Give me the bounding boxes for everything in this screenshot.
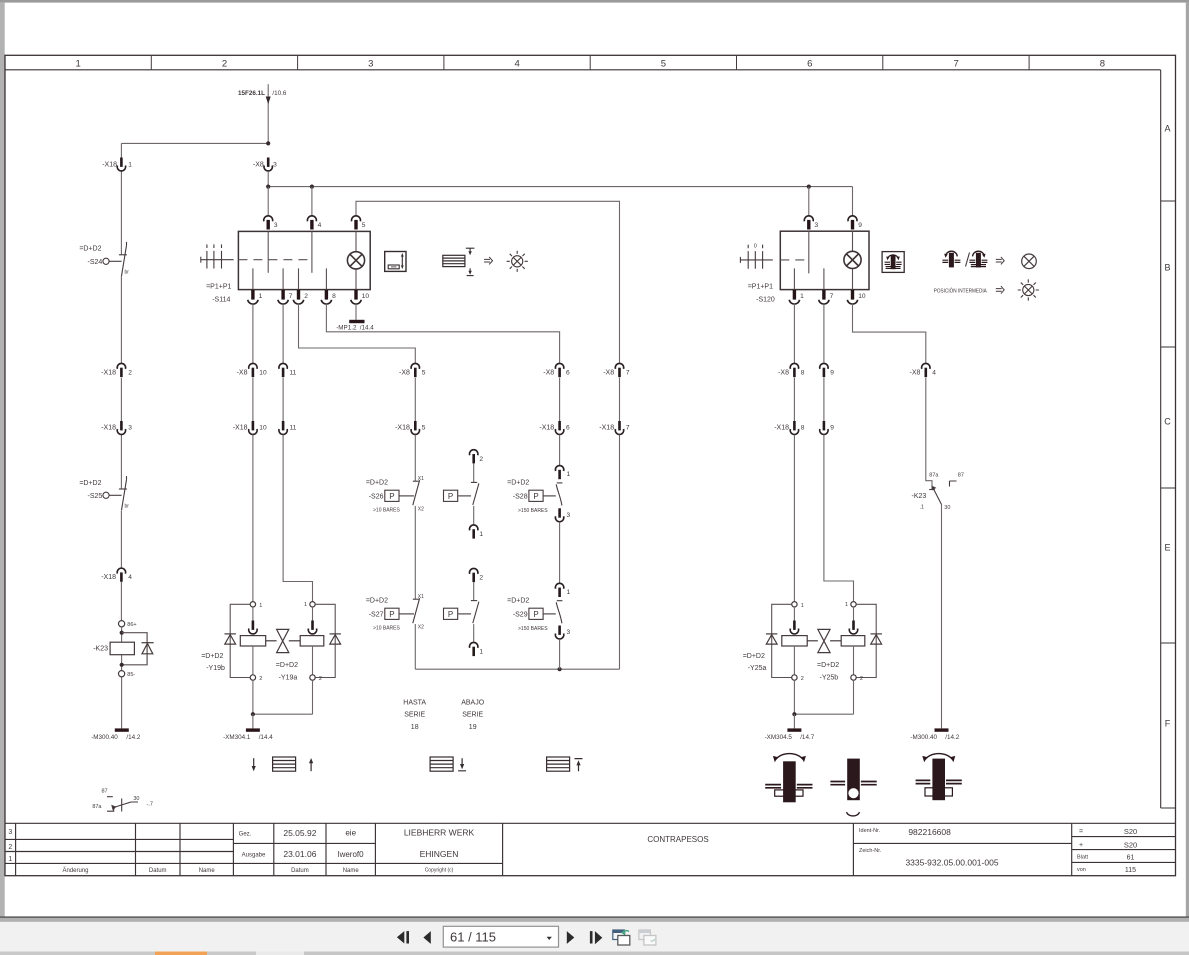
bottom icon arrow down to bar	[458, 758, 466, 771]
wire S28 to S29	[559, 522, 561, 584]
svg-text:115: 115	[1125, 867, 1136, 874]
contact ABAJO lower	[458, 601, 479, 624]
bottom icon arrow up to bar	[575, 759, 583, 772]
wire X18:6 to S28	[559, 435, 561, 466]
svg-text:=D+D2: =D+D2	[276, 662, 298, 669]
wire X18:5 to S26	[414, 435, 416, 481]
ground M300.40 right	[935, 728, 949, 731]
wire bus to S114 pin4	[311, 187, 313, 216]
svg-text:-X18: -X18	[233, 425, 248, 432]
wire S114 pin10 to MP1.2	[355, 304, 357, 320]
wire lamp feed S114 pin5	[356, 201, 620, 363]
legend stack icon	[443, 255, 465, 266]
svg-text:-S29: -S29	[513, 611, 528, 618]
pressure switch S28	[543, 483, 562, 506]
svg-text:1: 1	[845, 602, 848, 608]
svg-text:7: 7	[626, 425, 630, 432]
contact ABAJO lower P box	[444, 608, 458, 619]
terminal X18:5	[411, 421, 419, 434]
terminal ABAJO pin 2 upper	[470, 450, 478, 464]
pressure switch S28 P box	[529, 490, 543, 501]
svg-text:1: 1	[801, 603, 804, 609]
svg-text:>150 BARES: >150 BARES	[518, 626, 548, 632]
wire ABAJO lower	[473, 582, 475, 600]
svg-text:=D+D2: =D+D2	[79, 480, 101, 487]
taskbar sliver segment light	[256, 952, 304, 955]
wire bus to S114 pin3	[267, 187, 269, 216]
wire X8:9 to X18:9	[823, 378, 825, 422]
svg-text:POSICIÓN INTERMEDIA: POSICIÓN INTERMEDIA	[934, 287, 987, 294]
wire K23 30 to ground	[941, 505, 943, 729]
svg-text:HASTA: HASTA	[403, 700, 426, 707]
wire S25 to X18:4	[120, 511, 122, 569]
lamp H-S114	[347, 252, 364, 269]
svg-text:=D+D2: =D+D2	[366, 480, 388, 487]
svg-text:Blatt: Blatt	[1077, 855, 1088, 861]
wire ABAJO mid lower	[473, 624, 475, 642]
terminal S114 pin 4	[307, 216, 316, 230]
svg-text:br: br	[125, 504, 130, 510]
coil -Y19b	[240, 636, 265, 646]
valve block Y19 circle terminal 2 left	[250, 675, 255, 680]
svg-text:br: br	[125, 270, 130, 276]
svg-text:-X18: -X18	[539, 425, 554, 432]
svg-text:3: 3	[274, 222, 278, 229]
svg-text:-X18: -X18	[599, 425, 614, 432]
svg-text:86+: 86+	[127, 622, 136, 628]
bottom icon arrow up	[310, 762, 312, 771]
svg-text:-XM304.1: -XM304.1	[223, 734, 251, 741]
svg-text:1: 1	[479, 649, 483, 656]
terminal X18:9	[820, 421, 828, 434]
svg-text:Copyright (c): Copyright (c)	[425, 868, 454, 874]
svg-text:-X18: -X18	[395, 425, 410, 432]
svg-text:2: 2	[860, 676, 863, 682]
legend blinking lamp 2	[1018, 279, 1039, 300]
S120 internal contact lines	[794, 231, 852, 289]
svg-text:4: 4	[128, 574, 132, 581]
svg-text:=D+D2: =D+D2	[366, 598, 388, 605]
junction node bottom bus	[558, 667, 562, 671]
wire bus to S120 pin9	[809, 187, 853, 216]
terminal X18:4	[117, 568, 125, 582]
svg-text:eie: eie	[345, 829, 356, 838]
svg-text:-X8: -X8	[603, 370, 614, 377]
toolbar icon switch window disabled	[639, 930, 656, 945]
wire Y25 to ground bar	[793, 714, 795, 728]
svg-text:2: 2	[259, 676, 262, 682]
svg-text:1: 1	[567, 589, 571, 596]
taskbar sliver segment gray 3	[304, 952, 1189, 955]
coil -Y25a	[782, 636, 807, 646]
junction node Y19 ground	[251, 712, 255, 716]
valve block Y25 circle terminal 2 right	[851, 675, 856, 680]
svg-text:E: E	[1164, 543, 1170, 553]
wire top branch horizontal	[121, 142, 268, 144]
window chrome right strip	[1186, 3, 1189, 917]
svg-text:Name: Name	[343, 868, 360, 874]
svg-text:8: 8	[332, 293, 336, 300]
junction node bus at X8:3	[266, 185, 270, 189]
svg-text:SERIE: SERIE	[462, 712, 483, 719]
svg-text:3: 3	[368, 59, 373, 70]
legend square icon arrows	[401, 253, 404, 269]
svg-text:-M300.40: -M300.40	[91, 734, 118, 741]
svg-text:=D+D2: =D+D2	[507, 598, 529, 605]
wire Y19 ground link	[253, 680, 313, 714]
svg-text:2: 2	[801, 676, 804, 682]
svg-text:=: =	[1079, 829, 1083, 836]
diode Y19 left	[225, 634, 236, 644]
wire main top bus	[268, 186, 852, 188]
svg-text:-Y19b: -Y19b	[206, 665, 225, 672]
svg-text:A: A	[1164, 124, 1170, 134]
terminal X8:10	[249, 363, 257, 377]
toolbar button next view	[590, 931, 593, 943]
svg-text:1: 1	[800, 293, 804, 300]
svg-text:-S27: -S27	[369, 611, 384, 618]
svg-text:1: 1	[259, 603, 262, 609]
svg-text:Datum: Datum	[291, 868, 309, 874]
svg-text:>10 BARES: >10 BARES	[373, 626, 400, 632]
relay K23 coil terminal 85-	[119, 671, 125, 677]
svg-text:Ident-Nr.: Ident-Nr.	[859, 828, 881, 834]
terminal S114 pin 10	[351, 290, 361, 304]
svg-text:-X8: -X8	[543, 370, 554, 377]
relay K23 coil terminal 86+	[119, 621, 125, 627]
wire Y25 coil A bottom	[793, 646, 795, 675]
wire X8:10 to X18:10	[252, 378, 254, 422]
wire X8:5 to X18:5	[414, 378, 416, 422]
svg-text:11: 11	[290, 370, 297, 377]
svg-text:-S114: -S114	[212, 297, 230, 304]
svg-text:=D+D2: =D+D2	[743, 653, 765, 660]
svg-text:/14.7: /14.7	[800, 734, 815, 741]
wire X18:9 to Y25b	[824, 435, 854, 602]
svg-text:-Y25b: -Y25b	[820, 675, 839, 682]
svg-text:1: 1	[8, 856, 12, 863]
wire S114 pin1 to X8:10	[252, 304, 254, 364]
terminal S120 pin 10	[847, 290, 857, 304]
wire Y25 left diode branch	[772, 604, 792, 677]
toolbar button previous view	[397, 931, 404, 943]
svg-text:10: 10	[259, 425, 267, 432]
toolbar background	[0, 922, 1189, 952]
svg-text:30: 30	[133, 796, 139, 802]
wire ABAJO upper	[473, 463, 475, 482]
diode Y25 left	[766, 634, 777, 644]
taskbar sliver segment orange	[155, 952, 207, 955]
svg-text:5: 5	[661, 59, 666, 70]
title block lines	[5, 823, 1176, 875]
svg-text:-M300.40: -M300.40	[910, 734, 937, 741]
wire X18:8 to Y25a	[793, 435, 795, 602]
wire S114 pin7 to X8:11	[282, 304, 284, 364]
svg-text:X2: X2	[418, 625, 424, 631]
valve block Y19 circle terminal 1 right	[310, 602, 315, 607]
svg-text:von: von	[1077, 867, 1086, 873]
S114 operator symbol	[201, 244, 234, 268]
diode Y25 right	[871, 634, 882, 644]
svg-text:30: 30	[944, 505, 950, 511]
svg-text:982216608: 982216608	[908, 827, 951, 837]
legend arrow double right 3	[996, 286, 1004, 294]
toolbar button previous page	[423, 931, 430, 944]
svg-text:>10 BARES: >10 BARES	[373, 508, 400, 514]
wire bottom bus	[415, 668, 619, 670]
svg-text:9: 9	[830, 425, 834, 432]
wire X18:2 to X18:3	[120, 378, 122, 421]
svg-text:=D+D2: =D+D2	[817, 662, 839, 669]
S114 internal contact lines	[253, 231, 356, 289]
K23 aux contact arrowhead	[111, 805, 116, 811]
svg-text:7: 7	[626, 370, 630, 377]
svg-text:-X8: -X8	[253, 162, 264, 169]
terminal Y19 coil A	[249, 621, 257, 634]
svg-text:7: 7	[289, 293, 293, 300]
column cell ticks	[151, 55, 1029, 70]
terminal Y25 coil B	[849, 621, 857, 634]
svg-text:3: 3	[8, 829, 12, 836]
wire Y19 coil A bottom	[252, 646, 254, 675]
svg-text:1: 1	[479, 531, 483, 538]
svg-text:5: 5	[362, 222, 366, 229]
valve block Y25 circle terminal 1 right	[851, 602, 856, 607]
svg-text:-Y19a: -Y19a	[279, 675, 298, 682]
svg-text:Ausgabe: Ausgabe	[242, 853, 266, 859]
wire Y19 coil B bottom	[312, 646, 314, 675]
junction node Y25 ground	[792, 712, 796, 716]
svg-text:-S25: -S25	[88, 493, 103, 500]
svg-text:Zeich-Nr.: Zeich-Nr.	[859, 848, 882, 854]
terminal S120 pin 1	[789, 290, 799, 304]
svg-text:Änderung: Änderung	[62, 867, 88, 874]
lamp H-S120	[844, 251, 861, 268]
svg-text:S20: S20	[1124, 841, 1137, 850]
ground -XM304.1	[246, 728, 260, 731]
svg-text:0: 0	[754, 244, 757, 250]
terminal X18:8	[790, 421, 798, 434]
svg-text:6: 6	[807, 59, 812, 70]
wire X8:7 to X18:7	[619, 378, 621, 422]
wire S114 pin2 to X8:5	[299, 304, 416, 364]
svg-text:/14.2: /14.2	[126, 734, 141, 741]
svg-text:1: 1	[259, 293, 263, 300]
S120 square icon glyph	[885, 255, 902, 269]
svg-text:85-: 85-	[127, 672, 135, 678]
svg-text:-X8: -X8	[237, 370, 248, 377]
terminal X8:11	[279, 363, 287, 377]
switch S24	[103, 242, 127, 276]
wire to X18:1	[120, 143, 122, 157]
wire S120 pin10 to X8:4	[853, 304, 926, 364]
terminal X18:6	[555, 421, 563, 434]
svg-text:C: C	[1164, 417, 1171, 427]
bottom icon arrow down	[253, 758, 255, 767]
junction node K23 bottom	[120, 663, 124, 667]
svg-text:EHINGEN: EHINGEN	[420, 849, 459, 859]
terminal ABAJO pin 1 upper	[470, 525, 478, 539]
contact ABAJO upper P box	[444, 490, 458, 501]
wire Y25 coil B bottom	[853, 646, 855, 675]
wire S114 pin8 to X8:6	[326, 304, 559, 364]
svg-text:F: F	[1165, 719, 1171, 729]
ground M300.40 left	[115, 728, 129, 731]
terminal X8:9	[820, 363, 828, 377]
switch S25	[103, 476, 127, 510]
wire S24 to X18:2	[120, 276, 122, 364]
svg-text:15F26.1L: 15F26.1L	[238, 90, 265, 97]
svg-text:-X18: -X18	[101, 425, 116, 432]
valve symbol Y19	[266, 629, 301, 652]
wire Y25 coil B top	[853, 607, 855, 621]
svg-text:3: 3	[815, 222, 819, 229]
svg-text:+: +	[1079, 842, 1083, 849]
svg-text:.1: .1	[920, 505, 925, 511]
svg-text:Name: Name	[199, 868, 216, 874]
svg-text:=D+D2: =D+D2	[507, 480, 529, 487]
svg-text:3335-932.05.00.001-005: 3335-932.05.00.001-005	[905, 858, 998, 868]
terminal X8:8	[790, 363, 798, 377]
svg-text:-XM304.5: -XM304.5	[765, 734, 793, 741]
terminal X8:7	[615, 363, 623, 377]
svg-text:61: 61	[1127, 855, 1135, 862]
S120 square icon counterweight	[882, 252, 904, 273]
coil -Y25b	[841, 636, 865, 646]
pictogram ballast swing right	[916, 754, 962, 801]
terminal Y25 coil A	[790, 621, 798, 634]
toolbar icon switch window active	[613, 930, 630, 945]
svg-text:-K23: -K23	[912, 493, 927, 500]
wire X18:10 to Y19b	[252, 435, 254, 602]
svg-text:5: 5	[422, 370, 426, 377]
svg-text:=P1+P1: =P1+P1	[748, 284, 773, 291]
terminal X8:6	[555, 363, 563, 377]
svg-text:X2: X2	[418, 507, 424, 513]
window chrome top strip	[0, 0, 1189, 3]
wire X18:11 to Y19a	[283, 435, 312, 602]
svg-text:87: 87	[101, 789, 107, 795]
terminal ABAJO pin 1 lower	[470, 642, 478, 656]
wire K23 85- to ground	[121, 677, 123, 728]
svg-text:-X8: -X8	[399, 370, 410, 377]
svg-text:-X8: -X8	[778, 370, 789, 377]
svg-text:9: 9	[858, 222, 862, 229]
svg-text:7: 7	[953, 59, 958, 70]
pressure switch S26 P box	[385, 490, 399, 501]
terminal S114 pin 8	[321, 290, 331, 304]
K23 aux contact sketch	[107, 797, 138, 812]
wire S120 pin7 to X8:9	[823, 304, 825, 364]
junction node K23 top	[120, 631, 124, 635]
svg-text:-X18: -X18	[101, 574, 116, 581]
taskbar sliver segment gray 1	[0, 952, 155, 955]
wire Y19 left diode branch	[230, 604, 250, 677]
svg-text:/14.2: /14.2	[945, 734, 960, 741]
svg-text:SERIE: SERIE	[404, 712, 425, 719]
valve block Y19 circle terminal 2 right	[310, 675, 315, 680]
switch block S120 box	[780, 231, 869, 289]
svg-text:4: 4	[514, 59, 519, 70]
wire Y25 right diode branch	[856, 604, 876, 677]
svg-text:8: 8	[1100, 59, 1105, 70]
svg-text:4: 4	[318, 222, 322, 229]
svg-text:6: 6	[566, 425, 570, 432]
svg-text:-X18: -X18	[101, 370, 116, 377]
terminal X18:10	[249, 421, 257, 434]
svg-text:25.05.92: 25.05.92	[283, 828, 316, 838]
wire X8:6 to X18:6	[559, 378, 561, 422]
svg-text:23.01.06: 23.01.06	[283, 849, 316, 859]
terminal X8:5	[411, 363, 419, 377]
wire S27 to bottom bus	[414, 624, 416, 669]
terminal X18:11	[279, 421, 287, 434]
diode D-K23	[142, 643, 154, 654]
svg-text:19: 19	[469, 724, 477, 731]
pressure switch S27 P box	[385, 608, 399, 619]
wire X18:4 to K23 coil	[120, 582, 122, 621]
svg-text:ABAJO: ABAJO	[461, 700, 485, 707]
wire X8:4 to K23 contact	[926, 378, 932, 490]
wire Y25 coil A top	[793, 607, 795, 621]
legend stack arrowheads	[468, 251, 471, 275]
svg-text:-.7: -.7	[147, 801, 153, 807]
svg-text:/14.4: /14.4	[259, 734, 274, 741]
terminal S120 pin 7	[819, 290, 829, 304]
terminal S114 pin 2	[293, 290, 303, 304]
terminal S120 pin 3	[804, 216, 813, 230]
fuse arrow 15F26.1L	[266, 97, 271, 105]
svg-text:1: 1	[128, 162, 132, 169]
svg-text:8: 8	[801, 425, 805, 432]
terminal S120 pin 9	[848, 216, 857, 230]
terminal S114 pin 7	[278, 290, 288, 304]
svg-text:18: 18	[411, 724, 419, 731]
wire S120 pin1 to X8:8	[793, 304, 795, 364]
pictogram ballast swing left	[765, 754, 812, 803]
wire 86+ to coil	[121, 627, 123, 671]
wire X18:1 to S24	[120, 171, 122, 255]
wire X8:3 to bus	[267, 171, 269, 186]
svg-text:2: 2	[479, 575, 483, 582]
S114 internal dashed coupling line	[238, 259, 311, 261]
legend pair icon left	[942, 251, 960, 267]
terminal S114 pin 5	[352, 216, 361, 230]
svg-text:=P1+P1: =P1+P1	[206, 284, 231, 291]
legend arrow double right 1	[484, 257, 492, 265]
svg-text:61 / 115: 61 / 115	[450, 930, 496, 945]
S120 operator symbol	[740, 245, 772, 269]
svg-text:3: 3	[567, 629, 571, 636]
svg-text:X1: X1	[418, 594, 424, 600]
taskbar sliver segment gray 2	[207, 952, 256, 955]
toolbar button next page	[567, 931, 575, 944]
pictogram ballast center	[830, 759, 876, 816]
svg-text:-S120: -S120	[756, 297, 775, 304]
svg-text:=D+D2: =D+D2	[201, 653, 223, 660]
svg-text:-MP1.2: -MP1.2	[336, 325, 357, 332]
svg-text:2: 2	[304, 293, 308, 300]
bottom icon stack 2	[430, 757, 453, 771]
wire X18:3 to S25	[120, 435, 122, 489]
junction node bus at S114 pin4	[310, 185, 314, 189]
legend blinking lamp 1	[507, 251, 528, 272]
svg-text:1: 1	[567, 471, 571, 478]
svg-text:6: 6	[566, 370, 570, 377]
svg-text:LIEBHERR WERK: LIEBHERR WERK	[404, 828, 475, 838]
column number row bottom line	[5, 69, 1161, 71]
contact ABAJO upper	[458, 482, 479, 505]
